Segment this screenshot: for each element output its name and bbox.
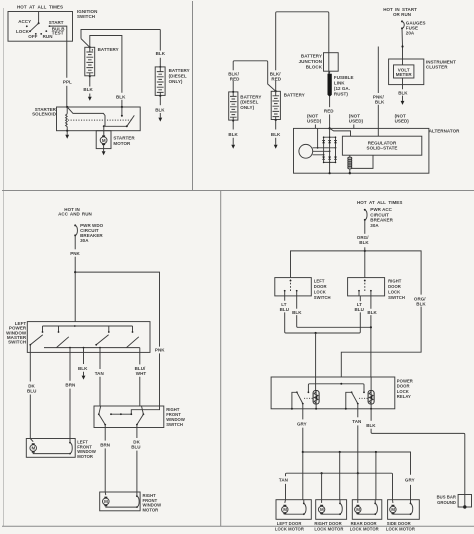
solenoid mechanical link (dashed) bbox=[68, 119, 133, 121]
quadrant divider vertical top bbox=[192, 1, 194, 191]
svg-text:BLK: BLK bbox=[83, 87, 93, 92]
TAN distribution line bbox=[286, 473, 393, 500]
svg-text:BLU: BLU bbox=[27, 388, 36, 393]
svg-text:LINK: LINK bbox=[334, 81, 345, 86]
svg-text:BRN: BRN bbox=[65, 383, 75, 388]
wire battery ground bbox=[89, 75, 91, 77]
svg-text:M: M bbox=[32, 446, 36, 451]
stub not-used 2 bbox=[353, 125, 355, 129]
starter motor box bbox=[96, 131, 111, 149]
wire gas battery q2 ground bbox=[275, 119, 277, 121]
svg-text:BLU: BLU bbox=[131, 445, 140, 450]
left switch wiper (dashed) bbox=[290, 280, 292, 293]
svg-text:START: START bbox=[49, 20, 64, 25]
wire PNK branch to right front switch bbox=[75, 272, 159, 347]
svg-text:WHT: WHT bbox=[136, 371, 147, 376]
right door lock switch box bbox=[348, 278, 385, 296]
quadrant divider vertical bottom bbox=[220, 191, 222, 527]
bus bar ground box bbox=[458, 495, 471, 508]
svg-text:(DIESEL: (DIESEL bbox=[169, 73, 187, 78]
svg-text:PNK: PNK bbox=[70, 251, 80, 256]
GRY drops to motors bbox=[303, 452, 376, 500]
svg-text:USED): USED) bbox=[395, 119, 410, 124]
wire BLK relay to bus bar ground bbox=[370, 409, 372, 421]
svg-text:BLK: BLK bbox=[375, 100, 385, 105]
relay feed rail bbox=[308, 384, 364, 392]
regulator field coil (inductor) bbox=[349, 155, 351, 173]
wire DK BLU to LF motor bbox=[29, 352, 31, 381]
wire fuse to cluster bbox=[401, 28, 404, 59]
fuse GAUGES 20A bbox=[401, 20, 403, 22]
bridge diodes upper bbox=[322, 141, 337, 144]
side door lock motor box bbox=[388, 500, 420, 520]
ignition switch S1 box bbox=[8, 12, 73, 42]
svg-text:SIDE DOOR: SIDE DOOR bbox=[387, 521, 411, 526]
svg-text:LOCK: LOCK bbox=[388, 290, 400, 295]
fusible link (12 ga) bbox=[328, 74, 332, 97]
GRY distribution line bbox=[302, 451, 304, 453]
svg-text:OR RUN: OR RUN bbox=[393, 12, 411, 17]
svg-text:M: M bbox=[320, 507, 324, 512]
wire ORG/BLK to relay bbox=[341, 307, 421, 377]
page frame left border bbox=[3, 8, 5, 526]
left switch contacts bbox=[284, 290, 286, 292]
wire solenoid to starter motor bbox=[103, 126, 105, 137]
regulator return path bbox=[352, 155, 373, 168]
volt meter box bbox=[394, 65, 414, 78]
svg-text:BLK: BLK bbox=[292, 310, 302, 315]
solenoid coil bbox=[66, 107, 68, 131]
ignition switch lever to LOCK bbox=[30, 23, 39, 31]
circuit breaker PWR ACC 30A bbox=[364, 209, 366, 211]
relay coil 2 bbox=[368, 391, 374, 405]
svg-text:GRY: GRY bbox=[405, 477, 415, 482]
solenoid fixed contact from battery bbox=[121, 106, 123, 108]
svg-text:BLU: BLU bbox=[280, 307, 289, 312]
wire BLU/WHT to RF switch bbox=[139, 352, 141, 364]
wire BRN to LF motor bbox=[69, 352, 71, 380]
svg-text:BATTERY: BATTERY bbox=[98, 47, 119, 52]
relay 1 link dashed bbox=[304, 397, 313, 399]
svg-text:BRN: BRN bbox=[100, 442, 110, 447]
battery (diesel only) bbox=[159, 66, 161, 68]
switch levers bbox=[30, 335, 139, 348]
wire GRY relay output bbox=[302, 404, 304, 420]
svg-text:LOCK: LOCK bbox=[314, 290, 326, 295]
node ORG/BLK distribution bbox=[364, 250, 366, 252]
svg-text:SOLENOID: SOLENOID bbox=[32, 112, 57, 117]
bridge diodes lower bbox=[322, 157, 337, 160]
svg-text:RIGHT DOOR: RIGHT DOOR bbox=[314, 521, 341, 526]
svg-text:RED: RED bbox=[271, 76, 281, 81]
starter solenoid box bbox=[57, 107, 141, 131]
master switch feed bus bbox=[43, 325, 133, 327]
wire ORG/BLK bus bbox=[291, 251, 422, 295]
wire RED node to regulator bbox=[330, 128, 351, 136]
ground arrow master switch bbox=[82, 376, 86, 380]
wire diesel battery ground bbox=[159, 95, 161, 97]
wire gas battery to junction block bbox=[276, 12, 329, 91]
svg-text:PPL: PPL bbox=[63, 80, 72, 85]
svg-text:REAR DOOR: REAR DOOR bbox=[351, 521, 377, 526]
LH power window master switch box bbox=[27, 322, 150, 353]
RF motor M bbox=[103, 497, 110, 507]
svg-text:M: M bbox=[102, 138, 106, 143]
svg-text:ACC AND RUN: ACC AND RUN bbox=[58, 212, 92, 217]
battery junction block bbox=[324, 53, 339, 71]
svg-text:PNK: PNK bbox=[155, 348, 165, 353]
node RED at alternator case bbox=[329, 127, 331, 129]
instrument cluster box bbox=[389, 59, 424, 85]
wire BRN to RF motor bbox=[104, 428, 106, 441]
regulator solid-state box bbox=[342, 136, 421, 155]
svg-text:BLK: BLK bbox=[155, 108, 165, 113]
svg-text:LEFT: LEFT bbox=[314, 279, 325, 284]
svg-text:BLK: BLK bbox=[116, 94, 126, 99]
ground arrow bbox=[274, 145, 278, 149]
svg-text:SWITCH: SWITCH bbox=[314, 295, 331, 300]
svg-text:HOT AT ALL TIMES: HOT AT ALL TIMES bbox=[357, 200, 402, 205]
wire BLK to diesel battery bbox=[159, 30, 161, 51]
svg-text:ONLY): ONLY) bbox=[169, 79, 183, 84]
svg-text:ACCY: ACCY bbox=[18, 19, 31, 24]
power door lock relay box bbox=[271, 377, 395, 409]
svg-text:BLK: BLK bbox=[78, 366, 88, 371]
left door lock motor box bbox=[276, 500, 311, 520]
right door lock motor box bbox=[316, 500, 347, 520]
svg-text:BATTERY: BATTERY bbox=[301, 54, 322, 59]
svg-text:LOCK MOTOR: LOCK MOTOR bbox=[314, 527, 343, 532]
battery (gas) q2 bbox=[275, 90, 277, 92]
svg-text:BLK: BLK bbox=[416, 301, 426, 306]
relay 1 (driver) pivot and lever bbox=[296, 391, 298, 393]
right front window switch box bbox=[94, 406, 164, 428]
rectifier bridge rails bbox=[324, 137, 336, 162]
right switch wiper (dashed) bbox=[364, 280, 366, 293]
svg-text:LOCK MOTOR: LOCK MOTOR bbox=[350, 527, 379, 532]
voltmeter ground bbox=[402, 78, 404, 89]
wire diesel battery q2 ground bbox=[232, 120, 234, 122]
RF motor winding arc bbox=[136, 492, 138, 496]
svg-text:30A: 30A bbox=[370, 223, 379, 228]
stub not-used 1 bbox=[314, 125, 316, 129]
svg-text:(12 GA.: (12 GA. bbox=[334, 86, 350, 91]
svg-text:20A: 20A bbox=[406, 31, 415, 36]
ground arrow bbox=[231, 145, 235, 149]
relay 2 (passenger) pivot and lever bbox=[351, 391, 353, 393]
svg-text:LOCK MOTOR: LOCK MOTOR bbox=[275, 527, 304, 532]
left door lock switch box bbox=[275, 278, 312, 296]
svg-text:HOT AT ALL TIMES: HOT AT ALL TIMES bbox=[17, 5, 63, 10]
wire BLK left switch bbox=[296, 296, 298, 309]
right switch contacts bbox=[358, 290, 360, 292]
svg-text:BATTERY: BATTERY bbox=[169, 68, 190, 73]
svg-text:BLK: BLK bbox=[366, 423, 376, 428]
svg-text:GROUND: GROUND bbox=[437, 500, 456, 505]
bottom page bar bbox=[2, 525, 474, 527]
svg-text:METER: METER bbox=[396, 72, 413, 77]
quadrant divider horizontal bbox=[2, 190, 474, 192]
svg-text:BATTERY: BATTERY bbox=[284, 92, 305, 97]
svg-text:MOTOR: MOTOR bbox=[113, 141, 131, 146]
svg-text:OFF: OFF bbox=[28, 34, 37, 39]
relay coil 1 bbox=[313, 391, 319, 405]
wire RED to alternator bbox=[329, 97, 331, 108]
bridge columns bbox=[324, 128, 336, 162]
svg-text:TAN: TAN bbox=[95, 371, 104, 376]
svg-text:30A: 30A bbox=[80, 238, 89, 243]
solenoid plunger linkage bbox=[67, 107, 105, 126]
svg-text:BLK: BLK bbox=[398, 90, 408, 95]
wire DK BLU to RF motor bbox=[136, 428, 138, 439]
svg-text:DOOR: DOOR bbox=[314, 284, 327, 289]
svg-text:RIGHT: RIGHT bbox=[388, 279, 402, 284]
svg-text:TAN: TAN bbox=[352, 419, 361, 424]
svg-text:BLK: BLK bbox=[359, 240, 369, 245]
svg-text:BLOCK: BLOCK bbox=[306, 64, 323, 69]
alternator field stub bbox=[317, 128, 319, 147]
left front window motor box bbox=[26, 439, 75, 458]
ground arrow diesel battery bbox=[158, 118, 162, 122]
svg-text:M: M bbox=[283, 507, 287, 512]
wire BLK right switch bbox=[370, 296, 372, 377]
ground arrow voltmeter bbox=[401, 101, 405, 105]
svg-text:TEST: TEST bbox=[52, 30, 64, 35]
LF motor winding arc bbox=[69, 439, 71, 443]
svg-text:USED): USED) bbox=[349, 119, 364, 124]
svg-text:BATTERY: BATTERY bbox=[240, 94, 261, 99]
svg-text:MOTOR: MOTOR bbox=[143, 507, 159, 512]
starter motor ground bbox=[103, 145, 105, 151]
svg-text:MOTOR: MOTOR bbox=[77, 454, 93, 459]
svg-text:RED: RED bbox=[230, 76, 240, 81]
svg-text:JUNCTION: JUNCTION bbox=[299, 59, 322, 64]
wire BLK master switch ground bbox=[83, 352, 85, 364]
svg-text:M: M bbox=[356, 507, 360, 512]
svg-text:GRY: GRY bbox=[297, 421, 307, 426]
svg-text:LOCK MOTOR: LOCK MOTOR bbox=[386, 527, 415, 532]
battery (diesel only) q2 bbox=[229, 92, 238, 120]
wire TAN to RF switch bbox=[99, 352, 101, 369]
wire PPL from START to solenoid bbox=[50, 26, 67, 78]
starter motor M bbox=[100, 135, 107, 145]
svg-text:RELAY: RELAY bbox=[397, 394, 411, 399]
svg-text:SWITCH: SWITCH bbox=[77, 14, 95, 19]
wire battery feed A bbox=[81, 30, 160, 39]
svg-text:USED): USED) bbox=[307, 119, 322, 124]
svg-text:SWITCH: SWITCH bbox=[388, 295, 405, 300]
exits through box bottom bbox=[30, 345, 140, 353]
alternator box bbox=[294, 128, 429, 173]
LF motor M bbox=[30, 443, 37, 453]
rear door lock motor box bbox=[352, 500, 382, 520]
svg-text:ONLY): ONLY) bbox=[240, 105, 254, 110]
svg-text:RUST): RUST) bbox=[334, 91, 348, 96]
svg-text:SOLID–STATE: SOLID–STATE bbox=[367, 146, 398, 151]
master switch ground bus bbox=[44, 347, 140, 349]
battery (gas) bbox=[85, 47, 95, 76]
svg-text:BLU: BLU bbox=[355, 307, 364, 312]
svg-text:BUS BAR: BUS BAR bbox=[437, 494, 456, 499]
svg-text:BLK: BLK bbox=[156, 51, 166, 56]
node battery B+ bbox=[89, 46, 91, 48]
solenoid ground bbox=[66, 130, 68, 132]
right front window motor box bbox=[100, 492, 140, 511]
solenoid S terminal node bbox=[66, 106, 68, 108]
bridge ground to case bbox=[329, 162, 331, 173]
wire B battery to solenoid BLK bbox=[90, 36, 122, 93]
node LT BLU to relay coil bbox=[315, 332, 317, 334]
relay 2 link dashed bbox=[359, 397, 368, 399]
svg-text:M: M bbox=[391, 507, 395, 512]
ground arrow battery bbox=[88, 97, 92, 101]
svg-text:RED: RED bbox=[324, 109, 334, 114]
svg-text:SWITCH: SWITCH bbox=[166, 422, 183, 427]
feed contacts bbox=[43, 326, 133, 332]
svg-text:BLK: BLK bbox=[367, 310, 377, 315]
svg-text:LEFT DOOR: LEFT DOOR bbox=[277, 521, 302, 526]
wire PNK breaker to master switch bbox=[74, 235, 76, 249]
svg-text:ALTERNATOR: ALTERNATOR bbox=[429, 129, 460, 134]
solenoid moving contact bbox=[127, 115, 135, 126]
solenoid contact bar bbox=[105, 125, 127, 127]
wire TAN relay output bbox=[357, 404, 359, 418]
svg-text:STARTER: STARTER bbox=[113, 136, 135, 141]
svg-text:(DIESEL: (DIESEL bbox=[240, 100, 258, 105]
svg-text:BLK: BLK bbox=[228, 132, 238, 137]
svg-text:SWITCH: SWITCH bbox=[8, 340, 26, 345]
svg-text:DOOR: DOOR bbox=[388, 284, 401, 289]
RF switch feed path bbox=[131, 406, 159, 414]
RF switch contacts and levers bbox=[99, 406, 101, 414]
stator phase leads bbox=[313, 148, 336, 155]
svg-text:BLK: BLK bbox=[271, 132, 281, 137]
node PNK branch bbox=[74, 271, 76, 273]
svg-text:TAN: TAN bbox=[279, 477, 288, 482]
wire LT BLU left bbox=[284, 296, 286, 301]
circuit breaker PWR WDO 30A bbox=[74, 224, 76, 226]
ground arrow solenoid bbox=[65, 135, 69, 139]
svg-text:FUSIBLE: FUSIBLE bbox=[334, 75, 354, 80]
wire LT BLU right switch bbox=[359, 296, 361, 301]
alternator stator winding circle bbox=[299, 144, 313, 158]
wire ORG/BLK breaker down bbox=[364, 220, 366, 234]
svg-text:CLUSTER: CLUSTER bbox=[426, 65, 448, 70]
ignition switch pivot bbox=[38, 22, 40, 24]
svg-text:M: M bbox=[104, 499, 108, 504]
wire batteries parallel top link bbox=[233, 61, 276, 91]
ignition switch wiper line bbox=[38, 12, 40, 24]
wire PNK/BLK from cluster junction to regulator bbox=[377, 47, 379, 94]
